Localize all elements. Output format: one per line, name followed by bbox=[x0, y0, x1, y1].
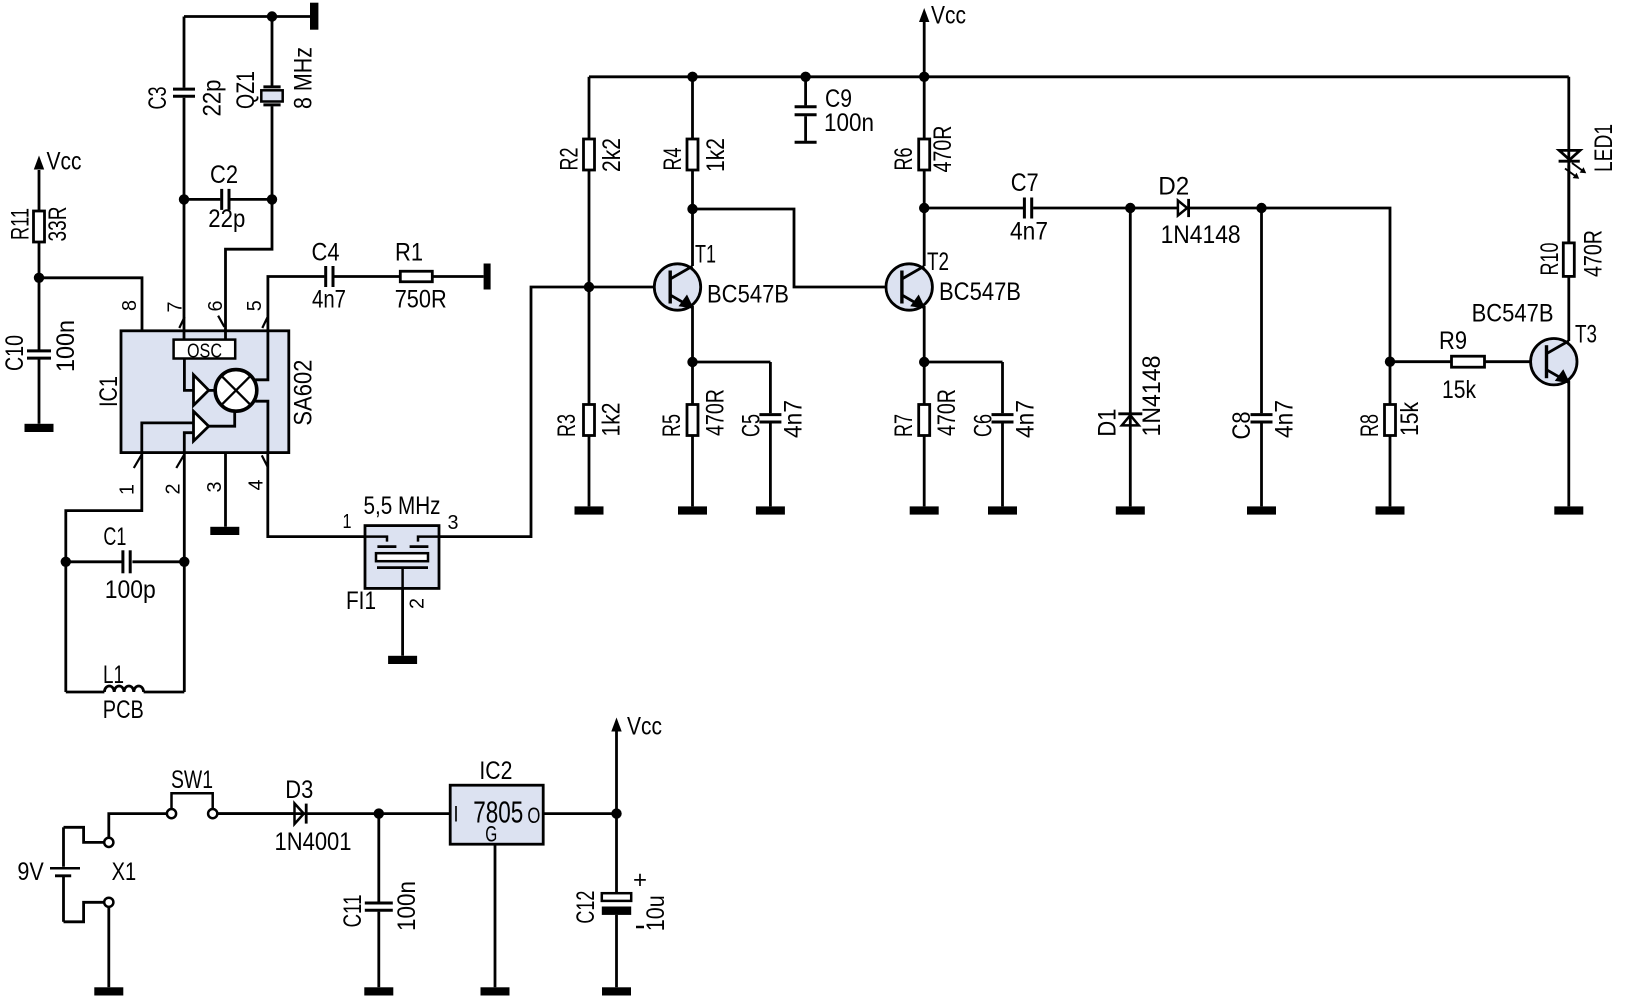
ground under IC2 bbox=[481, 987, 510, 995]
wire T1 collector to T2 base bbox=[693, 209, 902, 287]
capacitor C2 bbox=[184, 161, 272, 233]
power flag Vcc (left) bbox=[34, 148, 82, 212]
ground under C12 bbox=[602, 987, 631, 995]
transistor T2 bbox=[886, 248, 1021, 310]
wire C1-left down bbox=[64, 562, 67, 692]
node T1 base bbox=[584, 282, 594, 292]
ground under R8 bbox=[1376, 506, 1405, 514]
svg-text:SW1: SW1 bbox=[171, 766, 213, 794]
wire R4 to T1 collector bbox=[691, 170, 694, 209]
resistor R7 bbox=[890, 362, 961, 506]
svg-text:T2: T2 bbox=[927, 248, 949, 276]
svg-text:L1: L1 bbox=[103, 661, 124, 689]
IC1 buffer amp triangle bbox=[194, 375, 209, 406]
ground under C5 bbox=[756, 506, 785, 514]
svg-text:C12: C12 bbox=[572, 891, 600, 924]
svg-text:C5: C5 bbox=[738, 414, 766, 437]
ground under C10 bbox=[25, 424, 54, 432]
node D3/C11 bbox=[374, 808, 384, 818]
svg-text:8 MHz: 8 MHz bbox=[289, 47, 317, 109]
svg-text:QZ1: QZ1 bbox=[232, 71, 260, 109]
diode D2 bbox=[1130, 173, 1261, 250]
svg-text:R3: R3 bbox=[553, 414, 581, 437]
svg-text:5,5 MHz: 5,5 MHz bbox=[364, 492, 441, 520]
node T1 collector bbox=[687, 204, 697, 214]
svg-text:1N4148: 1N4148 bbox=[1161, 221, 1241, 249]
wire X1 to SW1 bbox=[109, 814, 167, 838]
wire C8 node to R8 node bbox=[1262, 208, 1391, 362]
svg-text:22p: 22p bbox=[198, 80, 226, 117]
transistor T3 bbox=[1472, 300, 1597, 385]
power flag Vcc (bottom) bbox=[611, 713, 662, 814]
wire to IC2 input bbox=[379, 812, 450, 815]
IC1 osc to buffer bbox=[184, 359, 193, 391]
ground top right bbox=[310, 3, 318, 30]
IC1 pin 5 bbox=[244, 300, 267, 328]
svg-text:5: 5 bbox=[244, 300, 266, 311]
IC1 pin2 internal bbox=[184, 433, 193, 453]
wire R11 to node bbox=[38, 242, 41, 278]
node C1 left bbox=[61, 557, 71, 567]
svg-text:C7: C7 bbox=[1011, 169, 1039, 197]
capacitor C3 bbox=[144, 17, 227, 200]
svg-text:4n7: 4n7 bbox=[1271, 400, 1299, 438]
svg-text:4: 4 bbox=[246, 480, 268, 491]
svg-text:R10: R10 bbox=[1536, 243, 1564, 276]
svg-text:1: 1 bbox=[343, 511, 352, 533]
ground under C6 bbox=[988, 506, 1017, 514]
svg-text:D3: D3 bbox=[285, 776, 313, 804]
node rail R6 bbox=[919, 72, 929, 82]
diode D1 bbox=[1093, 208, 1166, 506]
wire base node to T1 bbox=[589, 286, 670, 289]
svg-text:IC1: IC1 bbox=[95, 376, 123, 407]
node QZ1 top bbox=[267, 11, 277, 21]
svg-text:R2: R2 bbox=[556, 148, 584, 171]
IC1 mixer out to pin4 bbox=[255, 401, 268, 452]
svg-text:1N4001: 1N4001 bbox=[275, 828, 352, 856]
node C2 left bbox=[179, 194, 189, 204]
wire T3 emitter to ground bbox=[1567, 381, 1570, 507]
capacitor C6 bbox=[924, 362, 1039, 506]
resistor R8 bbox=[1356, 362, 1424, 507]
ground under R7 bbox=[910, 506, 939, 514]
node D1 top bbox=[1125, 203, 1135, 213]
wire T2 collector stub bbox=[923, 208, 926, 266]
node rail C9 bbox=[800, 72, 810, 82]
battery 9V bbox=[17, 827, 80, 922]
svg-text:10u: 10u bbox=[642, 895, 670, 931]
node rail R4 bbox=[687, 72, 697, 82]
svg-text:C4: C4 bbox=[312, 239, 340, 267]
transistor T1 bbox=[654, 241, 789, 311]
resistor R2 bbox=[556, 138, 627, 172]
svg-text:100n: 100n bbox=[393, 881, 421, 931]
svg-text:O: O bbox=[527, 803, 540, 828]
ground under X1 bbox=[94, 987, 123, 995]
svg-text:15k: 15k bbox=[1396, 402, 1424, 436]
resistor R11 bbox=[7, 207, 73, 243]
IC1 pin6 internal bbox=[224, 331, 227, 340]
svg-text:470R: 470R bbox=[1579, 230, 1607, 277]
svg-text:2: 2 bbox=[163, 484, 185, 495]
svg-text:750R: 750R bbox=[395, 286, 447, 314]
IC1 pin 7 bbox=[165, 302, 187, 329]
switch SW1 bbox=[167, 766, 217, 818]
svg-text:C2: C2 bbox=[210, 161, 238, 189]
svg-text:470R: 470R bbox=[702, 389, 730, 436]
resistor R10 bbox=[1536, 230, 1608, 277]
svg-text:100n: 100n bbox=[824, 109, 874, 137]
capacitor C8 bbox=[1228, 208, 1298, 506]
diode D3 bbox=[217, 776, 378, 856]
svg-text:T1: T1 bbox=[695, 241, 716, 269]
ground under FI1 bbox=[388, 656, 417, 664]
svg-text:PCB: PCB bbox=[103, 696, 144, 724]
capacitor C9 bbox=[795, 77, 874, 143]
svg-text:1N4148: 1N4148 bbox=[1138, 356, 1166, 437]
wire R2 to base node bbox=[588, 170, 591, 287]
svg-text:G: G bbox=[485, 822, 497, 847]
capacitor C7 bbox=[924, 169, 1130, 246]
wire rail to R6 bbox=[923, 77, 926, 139]
svg-text:9V: 9V bbox=[17, 858, 44, 886]
svg-text:Vcc: Vcc bbox=[931, 2, 966, 30]
crystal QZ1 bbox=[232, 17, 317, 200]
svg-text:4n7: 4n7 bbox=[780, 400, 808, 438]
wire R9 to T3 base bbox=[1485, 360, 1547, 363]
wire pin5 to C4 bbox=[268, 277, 325, 331]
wire FI1 out to T1 base node bbox=[439, 287, 589, 537]
wire Vcc rail bbox=[589, 75, 1569, 78]
svg-text:IC2: IC2 bbox=[479, 757, 512, 785]
svg-text:2k2: 2k2 bbox=[598, 138, 626, 172]
node C8 top bbox=[1256, 203, 1266, 213]
IC1 mixer out to pin5 bbox=[255, 331, 268, 380]
wire C4 to R1 bbox=[334, 275, 400, 278]
node Vcc out bbox=[611, 808, 621, 818]
svg-text:R1: R1 bbox=[395, 239, 423, 267]
svg-text:R4: R4 bbox=[659, 147, 687, 170]
capacitor C12 bbox=[572, 814, 670, 988]
wire rail to R4 bbox=[691, 77, 694, 139]
svg-text:1k2: 1k2 bbox=[702, 138, 730, 172]
resistor R6 bbox=[890, 126, 957, 173]
wire pin4 to FI1 bbox=[268, 453, 365, 537]
svg-text:3: 3 bbox=[204, 482, 226, 493]
svg-text:D2: D2 bbox=[1158, 173, 1189, 201]
svg-text:470R: 470R bbox=[933, 389, 961, 436]
wire X1 to ground bbox=[107, 907, 110, 987]
svg-text:100p: 100p bbox=[105, 576, 156, 604]
wire SW1 to D3 bbox=[217, 812, 294, 815]
svg-text:FI1: FI1 bbox=[346, 587, 376, 615]
ground under R3 bbox=[575, 506, 604, 514]
ground under pin 3 bbox=[210, 527, 239, 535]
wire T1 emitter bbox=[691, 306, 694, 362]
wire IC2 G to ground bbox=[494, 844, 497, 987]
wire battery top to X1 bbox=[64, 827, 105, 842]
svg-text:1: 1 bbox=[117, 484, 139, 495]
svg-text:4n7: 4n7 bbox=[1012, 400, 1040, 438]
wire R1 to ground bbox=[432, 275, 483, 278]
capacitor C10 bbox=[1, 278, 80, 424]
IC1 pin7 internal bbox=[183, 331, 186, 340]
svg-text:BC547B: BC547B bbox=[939, 278, 1021, 306]
node Vcc-filter junction bbox=[34, 273, 44, 283]
power flag Vcc (top) bbox=[919, 2, 966, 77]
node C2 right bbox=[267, 194, 277, 204]
svg-text:T3: T3 bbox=[1575, 321, 1597, 349]
wire collector stub bbox=[691, 209, 694, 266]
IC1 pin 4 bbox=[246, 455, 268, 490]
IC1 amp2 to mixer bbox=[209, 410, 235, 427]
svg-text:22p: 22p bbox=[208, 205, 245, 233]
resistor R5 bbox=[658, 362, 730, 506]
IC1 input amp triangle bbox=[194, 411, 209, 441]
wire C3 column to IC1 pin 7 bbox=[183, 199, 186, 330]
inductor L1 bbox=[66, 661, 185, 724]
wire IC2 out to node bbox=[543, 812, 616, 815]
resistor R4 bbox=[659, 138, 730, 172]
wire node to R9 bbox=[1390, 360, 1452, 363]
wire node to IC1 pin 8 bbox=[39, 278, 142, 331]
svg-text:BC547B: BC547B bbox=[1472, 300, 1554, 328]
svg-text:4n7: 4n7 bbox=[1010, 218, 1048, 246]
IC1 pin 8 bbox=[119, 300, 141, 311]
svg-text:Vcc: Vcc bbox=[627, 713, 662, 741]
svg-text:+: + bbox=[633, 866, 647, 894]
ground under T3 bbox=[1554, 506, 1583, 514]
wire pin3 to ground bbox=[224, 453, 227, 527]
svg-text:470R: 470R bbox=[929, 126, 957, 173]
node R8/R9 bbox=[1385, 357, 1395, 367]
svg-text:C8: C8 bbox=[1228, 412, 1256, 440]
IC1 pin 3 bbox=[204, 482, 226, 493]
svg-text:C1: C1 bbox=[103, 523, 126, 551]
svg-text:6: 6 bbox=[205, 301, 227, 312]
wire pin2 column bbox=[183, 453, 186, 692]
node T2 collector bbox=[919, 203, 929, 213]
svg-text:R6: R6 bbox=[890, 148, 918, 171]
IC1 pin 2 bbox=[163, 455, 185, 494]
svg-text:R7: R7 bbox=[890, 414, 918, 437]
LED LED1 bbox=[1559, 77, 1618, 243]
svg-text:100n: 100n bbox=[52, 320, 80, 372]
wire T2 emitter bbox=[923, 306, 926, 362]
wire top to ground bbox=[184, 15, 310, 18]
svg-text:4n7: 4n7 bbox=[312, 286, 346, 314]
svg-text:SA602: SA602 bbox=[290, 360, 318, 426]
regulator IC2 bbox=[450, 757, 543, 847]
wire C2-right to IC1 pin 6 bbox=[226, 199, 273, 330]
wire LED to R10 bbox=[1567, 165, 1570, 243]
node T1 emitter bbox=[687, 357, 697, 367]
svg-text:LED1: LED1 bbox=[1590, 124, 1618, 172]
IC1 mixer circle bbox=[209, 370, 257, 412]
wire rail to R2 bbox=[588, 77, 591, 139]
svg-text:2: 2 bbox=[407, 598, 429, 609]
capacitor C4 bbox=[312, 239, 347, 314]
svg-text:33R: 33R bbox=[44, 207, 72, 242]
wire battery bottom to X1 bbox=[64, 902, 105, 922]
wire T3 collector to R10 bbox=[1567, 276, 1570, 341]
svg-text:C6: C6 bbox=[970, 414, 998, 437]
wire pin1 to C1 bbox=[66, 453, 142, 562]
svg-text:R11: R11 bbox=[7, 208, 35, 240]
svg-text:C3: C3 bbox=[144, 87, 172, 110]
svg-text:Vcc: Vcc bbox=[47, 148, 82, 176]
capacitor C1 bbox=[66, 523, 185, 604]
svg-text:OSC: OSC bbox=[187, 340, 222, 362]
svg-text:I: I bbox=[454, 802, 459, 827]
filter FI1 bbox=[343, 492, 459, 615]
resistor R1 bbox=[395, 239, 447, 314]
svg-text:8: 8 bbox=[119, 300, 141, 311]
ground under C8 bbox=[1247, 506, 1276, 514]
IC1 pin1 internal bbox=[142, 423, 194, 453]
wire FI1 pin2 to ground bbox=[401, 588, 404, 655]
wire R6 to T2 collector bbox=[923, 170, 926, 208]
capacitor C11 bbox=[339, 814, 421, 988]
node T2 emitter bbox=[919, 357, 929, 367]
IC1 OSC block bbox=[174, 340, 236, 363]
svg-text:1k2: 1k2 bbox=[598, 403, 626, 437]
svg-text:C11: C11 bbox=[339, 895, 367, 928]
svg-text:7: 7 bbox=[165, 302, 187, 313]
svg-text:C10: C10 bbox=[1, 335, 29, 371]
IC IC1 outline bbox=[95, 331, 318, 453]
svg-text:X1: X1 bbox=[112, 858, 137, 886]
IC1 pin 1 bbox=[117, 455, 142, 495]
svg-text:R9: R9 bbox=[1439, 327, 1467, 355]
ground right of R1 bbox=[484, 264, 491, 290]
IC1 pin 6 bbox=[205, 301, 227, 327]
resistor R3 bbox=[553, 287, 626, 506]
ground under R5 bbox=[678, 506, 707, 514]
svg-text:BC547B: BC547B bbox=[707, 281, 789, 309]
node C1 right bbox=[179, 557, 189, 567]
svg-text:3: 3 bbox=[448, 512, 459, 534]
ground under C11 bbox=[364, 987, 393, 995]
svg-text:R8: R8 bbox=[1356, 414, 1384, 437]
ground under D1 bbox=[1116, 506, 1145, 514]
resistor R9 bbox=[1439, 327, 1485, 404]
capacitor C5 bbox=[693, 362, 808, 506]
svg-text:15k: 15k bbox=[1442, 376, 1476, 404]
connector X1 bbox=[104, 838, 136, 907]
svg-text:R5: R5 bbox=[658, 414, 686, 437]
svg-text:7805: 7805 bbox=[473, 795, 523, 830]
svg-text:D1: D1 bbox=[1093, 409, 1121, 437]
